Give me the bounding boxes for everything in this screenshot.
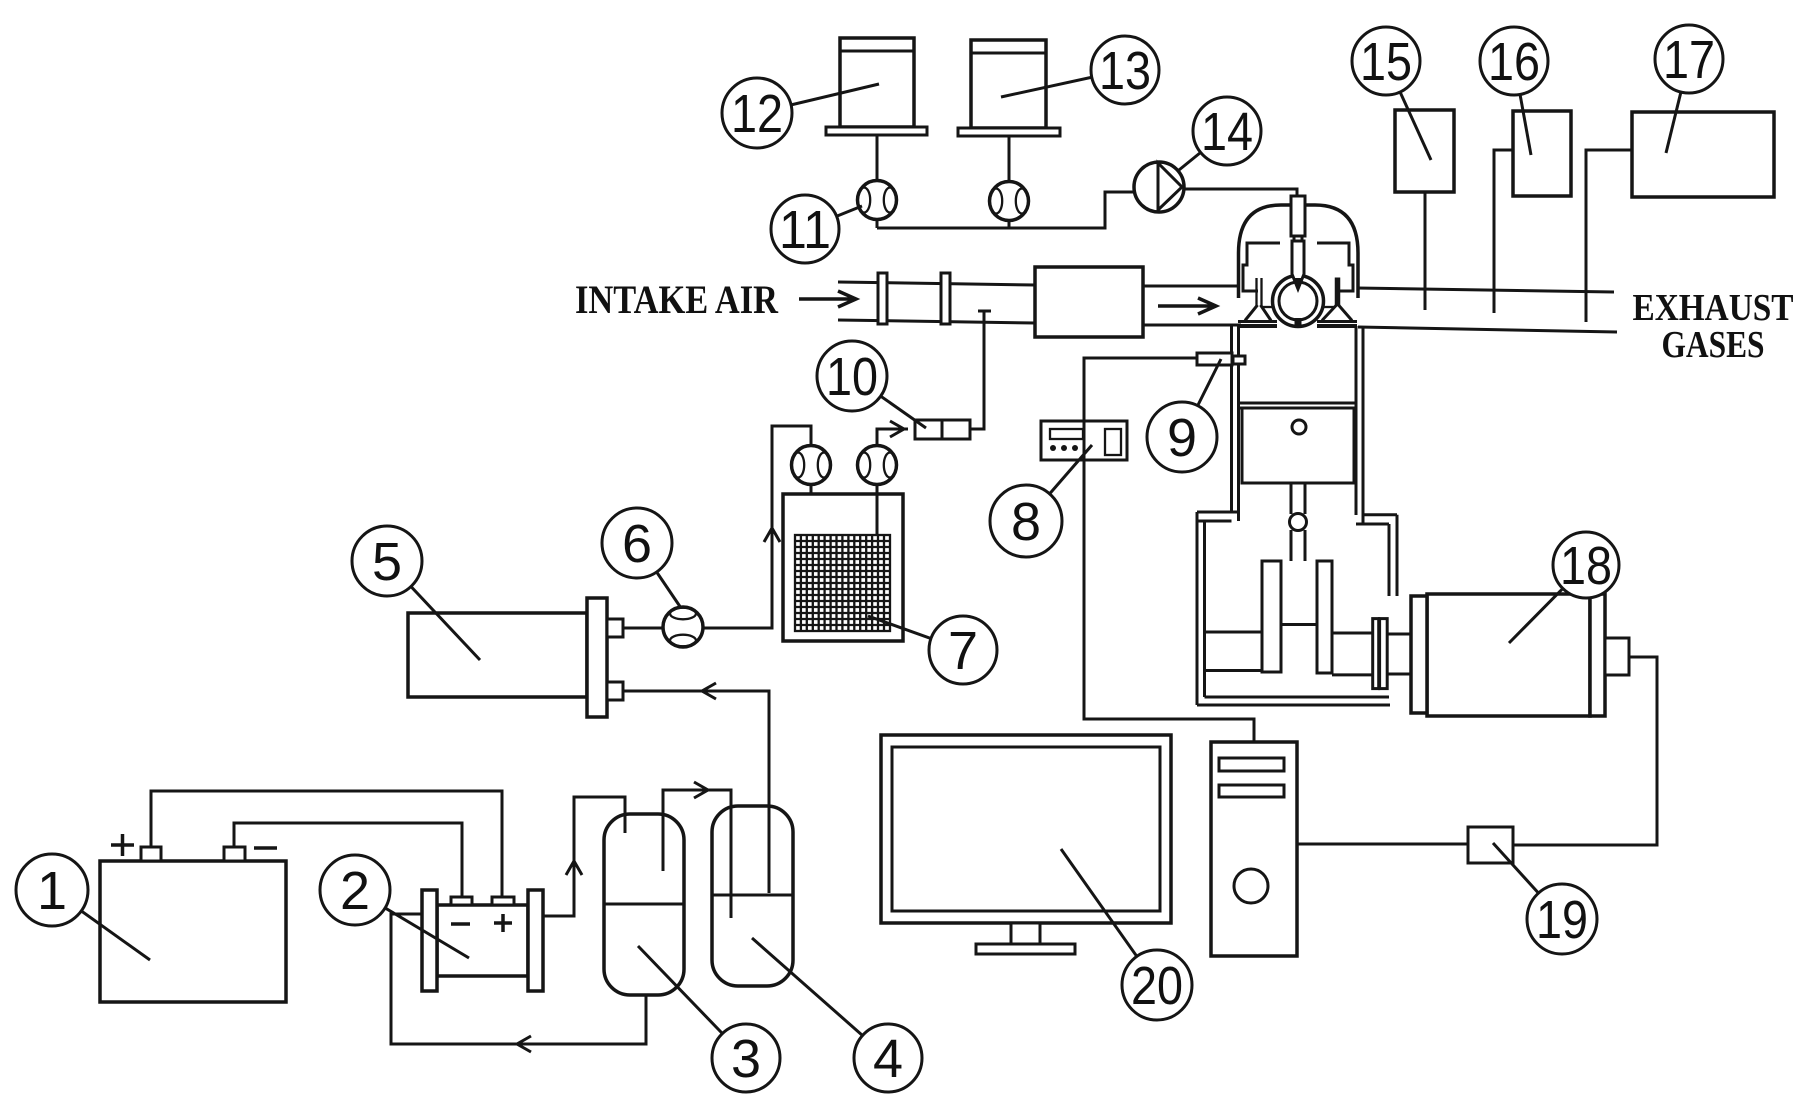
intake pipe	[838, 273, 1035, 324]
label 8	[990, 445, 1092, 557]
label 11	[771, 195, 862, 263]
combustion chamber	[1273, 276, 1324, 329]
piston	[1239, 403, 1357, 483]
fuel tank 13	[958, 40, 1060, 182]
svg-text:16: 16	[1488, 32, 1540, 92]
svg-text:11: 11	[779, 200, 831, 260]
intake valve	[1245, 278, 1273, 321]
wire tank4 to cylinder5 bottom port	[623, 683, 769, 893]
intake air arrow	[799, 291, 856, 307]
svg-text:13: 13	[1099, 41, 1151, 101]
arrow plenum to engine	[1158, 298, 1216, 314]
label 5	[352, 526, 480, 660]
ball valve 7a inlet	[792, 446, 831, 536]
svg-text:8: 8	[1011, 492, 1041, 552]
bubbler tank 3	[604, 814, 684, 995]
intake valve seat	[1238, 322, 1277, 327]
dynamometer 18	[1411, 594, 1629, 716]
analyzer box 15	[1395, 110, 1454, 192]
monitor 20	[881, 735, 1171, 954]
label 4	[752, 938, 922, 1092]
wire dynamometer to box 19	[1513, 657, 1657, 845]
data box 19	[1468, 827, 1513, 863]
probe line sensor 15	[1424, 192, 1427, 310]
crankshaft left	[1205, 632, 1263, 671]
label 14	[1179, 97, 1261, 170]
svg-text:9: 9	[1167, 408, 1197, 468]
exhaust valve seat	[1317, 322, 1357, 327]
svg-text:3: 3	[731, 1029, 761, 1089]
crank pin	[1281, 623, 1317, 626]
label 18	[1509, 532, 1619, 643]
wire valve6 to arrestor riser	[703, 426, 812, 628]
label 12	[722, 78, 879, 148]
fuel injector nozzle	[1291, 196, 1305, 289]
connecting rod	[1290, 483, 1307, 561]
label 1	[16, 854, 150, 960]
svg-text:EXHAUST: EXHAUST	[1633, 287, 1794, 329]
fuel manifold tanks to pump	[877, 192, 1137, 228]
pump 14	[1134, 162, 1184, 212]
svg-text:INTAKE AIR: INTAKE AIR	[575, 277, 779, 322]
intake pipe to engine	[1143, 286, 1241, 325]
ball valve 11	[858, 181, 897, 220]
wire battery minus to electrolyzer minus	[234, 823, 462, 897]
label 20	[1061, 849, 1192, 1020]
crankshaft right	[1332, 633, 1373, 675]
label 17	[1655, 25, 1723, 153]
head inner bracket right	[1317, 243, 1353, 291]
svg-text:17: 17	[1663, 30, 1715, 90]
wire computer to box 19	[1297, 843, 1468, 846]
bubbler tank 4	[712, 806, 793, 986]
fuel line pump to engine injector	[1184, 189, 1297, 196]
svg-text:5: 5	[372, 532, 402, 592]
wire cylinder5 top port to valve6	[623, 627, 666, 630]
gas cylinder 5	[408, 598, 623, 717]
wire return tank3 to electrolyzer	[391, 914, 646, 1052]
computer tower	[1211, 742, 1297, 956]
control unit 8	[1041, 421, 1127, 460]
svg-text:10: 10	[826, 347, 878, 407]
svg-text:15: 15	[1360, 32, 1412, 92]
head inner bracket left	[1243, 243, 1280, 291]
crankcase	[1197, 512, 1397, 705]
label 9	[1147, 359, 1221, 472]
fuel tank 12	[826, 38, 927, 181]
flame arrestor 7	[783, 494, 903, 641]
coupling flywheel	[1373, 619, 1388, 689]
svg-text:19: 19	[1536, 890, 1588, 950]
label 7	[868, 616, 997, 684]
label 15	[1352, 27, 1431, 160]
wire tank3 to tank4	[663, 782, 731, 918]
probe line sensor 17	[1586, 150, 1632, 322]
label 13	[1001, 36, 1159, 104]
electrolyzer 2	[422, 890, 543, 991]
wire valve7b to injector10	[877, 421, 908, 446]
sensor 9	[1197, 353, 1245, 365]
intake plenum box	[1035, 267, 1143, 337]
ball valve 6	[663, 607, 703, 647]
svg-text:1: 1	[37, 861, 67, 921]
EXHAUST GASES text	[1633, 287, 1794, 366]
label 2	[320, 855, 469, 958]
svg-text:6: 6	[622, 514, 652, 574]
svg-text:12: 12	[731, 84, 783, 144]
cylinder walls	[1232, 325, 1364, 524]
exhaust pipe	[1357, 288, 1617, 332]
wire sensor9 to control unit 8 and computer	[1084, 358, 1254, 742]
svg-text:7: 7	[948, 621, 978, 681]
svg-text:20: 20	[1131, 956, 1183, 1016]
svg-text:2: 2	[340, 861, 370, 921]
ball valve under tank 13	[990, 182, 1029, 221]
label 3	[638, 946, 780, 1092]
wire battery plus to electrolyzer plus	[151, 791, 502, 897]
probe line sensor 16	[1494, 150, 1513, 313]
label 19	[1493, 843, 1597, 954]
wire electrolyzer to tank3	[543, 797, 625, 916]
shaft to dynamometer	[1387, 634, 1411, 674]
analyzer box 17	[1632, 112, 1774, 197]
svg-text:18: 18	[1560, 536, 1612, 596]
crank web left	[1262, 561, 1281, 672]
battery 1	[100, 834, 286, 1002]
svg-text:4: 4	[873, 1029, 903, 1089]
engine cylinder head dome	[1239, 205, 1359, 298]
exhaust valve	[1322, 278, 1352, 321]
label 16	[1480, 27, 1548, 155]
svg-text:14: 14	[1201, 102, 1253, 162]
analyzer box 16	[1513, 111, 1571, 196]
svg-text:GASES: GASES	[1662, 324, 1765, 366]
ball valve 7b outlet	[858, 446, 897, 536]
label 10	[817, 341, 926, 428]
injector 10	[915, 420, 970, 439]
label 6	[602, 508, 681, 608]
crank web right	[1317, 561, 1332, 673]
wire injector10 to intake tap	[970, 311, 991, 429]
